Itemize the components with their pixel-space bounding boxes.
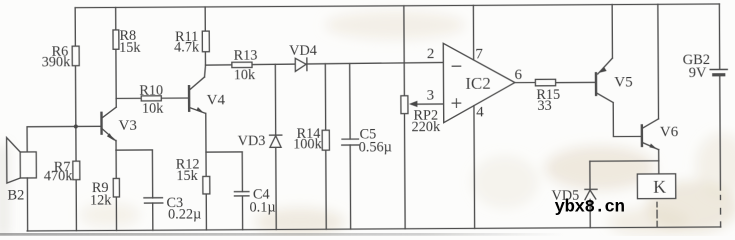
label R12 15k [176, 156, 200, 184]
pin 7 label [475, 47, 483, 63]
capacitor C4 [234, 152, 249, 230]
svg-text:ybx8.cn: ybx8.cn [555, 198, 625, 218]
wire: V4 emitter / R12 line [205, 113, 208, 230]
label R11 4.7k [174, 29, 200, 56]
resistor R11 [202, 31, 209, 52]
capacitor C3 [144, 150, 163, 230]
label R9 12k [90, 180, 112, 209]
svg-text:7: 7 [475, 47, 483, 63]
svg-text:R10: R10 [139, 83, 163, 99]
wire: emitter node to C4 [206, 151, 242, 153]
svg-text:V6: V6 [660, 124, 679, 140]
transistor V5 (PNP) [596, 58, 613, 103]
battery label GB2 9V [683, 52, 711, 81]
svg-text:390k: 390k [42, 54, 72, 70]
svg-text:4: 4 [476, 105, 484, 121]
transistor V6 (NPN) [642, 119, 659, 150]
svg-text:12k: 12k [90, 192, 112, 208]
svg-text:470k: 470k [44, 168, 74, 184]
label R10 10k [139, 83, 164, 117]
pin 4 label [476, 105, 484, 121]
speaker B2 [7, 137, 37, 183]
label RP2 220k [411, 108, 441, 136]
wire: emitter node horizontal to C3 [116, 149, 152, 151]
wire: R8 vertical line [115, 7, 118, 107]
label IC2 [465, 74, 491, 93]
svg-text:B2: B2 [7, 187, 24, 203]
resistor R14 [322, 130, 329, 150]
wire: speaker B2 top wire to base junction [27, 126, 101, 152]
svg-text:2: 2 [427, 46, 435, 62]
pin 2 label [427, 46, 435, 62]
label V6 [660, 124, 679, 140]
resistor R10 [141, 96, 161, 101]
bottom supply rail [27, 227, 720, 231]
label R7 470k [44, 159, 74, 184]
right rail upper segment [718, 4, 720, 69]
svg-text:R13: R13 [234, 48, 258, 64]
relay K box [637, 174, 675, 199]
transistor V3 [101, 107, 116, 141]
svg-text:0.1µ: 0.1µ [249, 199, 275, 215]
resistor R12 [203, 176, 210, 194]
svg-text:0.56µ: 0.56µ [359, 139, 392, 155]
svg-text:33: 33 [537, 98, 551, 114]
pin 3 label [427, 88, 435, 104]
pin 6 label [515, 67, 523, 83]
svg-text:V4: V4 [207, 92, 226, 108]
label K [653, 177, 666, 197]
wire: speaker B2 bottom wire [26, 178, 28, 231]
transistor V4 [189, 77, 206, 113]
label R15 33 [536, 87, 560, 114]
wire: signal wire from R11 node to op-amp pin 2 [205, 62, 443, 65]
potentiometer RP2 [401, 96, 444, 114]
wire: C5 vertical line [349, 64, 352, 229]
label C5 0.56u [359, 126, 392, 155]
battery GB2 [710, 69, 728, 190]
label VD5 [551, 188, 579, 204]
wire: R14 vertical line [324, 64, 327, 229]
label R14 100k [293, 126, 323, 153]
watermark ybx8.cn [555, 198, 625, 218]
svg-text:220k: 220k [412, 119, 442, 135]
svg-text:15k: 15k [119, 40, 141, 56]
wire: R9 line [115, 150, 117, 230]
svg-text:100k: 100k [293, 136, 323, 152]
capacitor C5 [342, 139, 359, 145]
pin 7 wire [472, 5, 474, 59]
resistor R9 [113, 178, 119, 197]
wire: left vertical R6/R7 line [75, 8, 76, 231]
wire: V5 collector down and to V6 base [613, 102, 640, 136]
svg-text:10k: 10k [142, 101, 164, 117]
pin 4 wire [473, 106, 476, 229]
wire: VD5 vertical line [589, 161, 591, 227]
wire: op-amp output to V5 base [515, 81, 595, 84]
resistor R13 [232, 62, 252, 67]
wire: R10 horizontal [116, 97, 189, 99]
top supply rail [75, 4, 719, 8]
wire: VD5 branch horizontal [590, 160, 659, 162]
svg-text:15k: 15k [176, 168, 198, 184]
svg-text:0.22µ: 0.22µ [168, 206, 201, 222]
svg-text:VD4: VD4 [289, 43, 317, 59]
resistor R8 [113, 30, 119, 49]
op-amp U IC2 [443, 43, 515, 123]
right rail dashed lower segment [719, 195, 721, 226]
label VD4 [289, 43, 317, 59]
label V3 [118, 118, 136, 134]
label C3 0.22u [166, 195, 201, 223]
wire: VD3 vertical line [274, 64, 277, 229]
svg-text:4.7k: 4.7k [174, 39, 200, 55]
wire: V6 emitter down to relay K [658, 150, 660, 175]
svg-text:VD3: VD3 [238, 133, 266, 149]
label B2 [7, 187, 24, 203]
label V5 [614, 74, 632, 90]
svg-text:6: 6 [515, 67, 523, 83]
svg-text:IC2: IC2 [465, 74, 491, 93]
svg-text:3: 3 [427, 88, 435, 104]
label R8 15k [119, 28, 141, 56]
wire: V3 emitter down [115, 140, 117, 150]
label R13 10k [234, 48, 258, 84]
wire: V6 collector to top rail [657, 4, 660, 118]
diode VD4 [295, 58, 307, 71]
svg-text:V5: V5 [614, 74, 632, 90]
label R6 390k [42, 44, 72, 71]
node junction dot [74, 124, 78, 128]
svg-text:10k: 10k [234, 67, 256, 83]
svg-text:K: K [653, 177, 666, 197]
wire: V5 emitter to top rail [611, 5, 613, 58]
diode VD5 [585, 189, 597, 199]
svg-text:9V: 9V [689, 65, 707, 81]
wire: V4 collector / R11 line [204, 7, 205, 77]
label C4 0.1u [249, 187, 275, 216]
resistor R15 [535, 79, 555, 86]
label VD3 [238, 133, 266, 149]
svg-text:V3: V3 [118, 118, 136, 134]
wire: dashed line below relay K [656, 202, 658, 226]
label V4 [207, 92, 226, 108]
resistor R6 [72, 46, 79, 66]
resistor R7 [73, 161, 80, 180]
diode VD3 [270, 135, 282, 147]
wire: RP2 vertical line top rail to bottom rail [404, 6, 405, 229]
